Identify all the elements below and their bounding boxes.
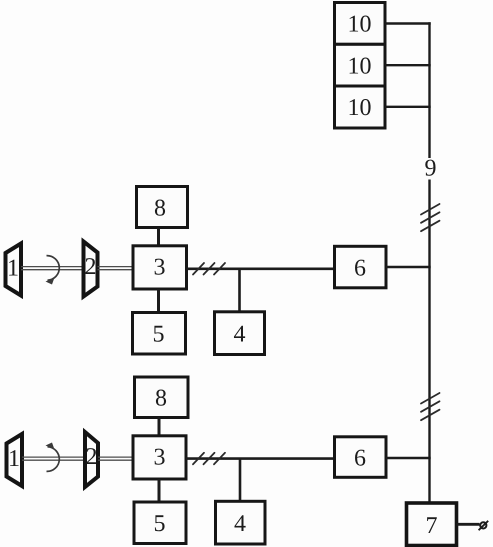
propeller 1 (top) <box>6 244 22 296</box>
wire junction drop to 4 (top) <box>238 269 241 312</box>
wire 7 output <box>457 523 480 526</box>
svg-text:9: 9 <box>425 156 437 182</box>
block 5 (top) <box>133 313 186 355</box>
block 5 (bottom) <box>134 502 186 544</box>
wire junction drop to 4 (bottom) <box>239 459 242 502</box>
output terminal symbol <box>479 521 489 530</box>
svg-text:4: 4 <box>234 322 246 348</box>
wire 10c to bus <box>385 106 431 108</box>
wire 3 to 6 (bottom) <box>186 457 335 460</box>
rotation arrow (top) <box>46 256 60 285</box>
block 3 (top) <box>133 246 187 289</box>
hash marks on wire 3-6 (top) <box>193 263 225 275</box>
wire 3 to 6 (top) <box>187 267 335 270</box>
block 10b <box>335 44 386 86</box>
wire 6 to bus (bottom) <box>386 457 431 459</box>
svg-text:2: 2 <box>85 254 97 280</box>
shaft segment 2-3 (top, double line) <box>98 267 134 270</box>
shaft segment 2-3 (bottom, double line) <box>98 457 133 460</box>
block 6 (bottom) <box>335 437 387 478</box>
propeller 1 (bottom) <box>7 434 23 486</box>
rotation arrow (bottom) <box>46 443 60 472</box>
svg-text:8: 8 <box>154 196 166 222</box>
block 8 (bottom) <box>135 377 189 418</box>
svg-text:3: 3 <box>154 255 166 281</box>
svg-text:8: 8 <box>155 386 167 412</box>
block 8 (top) <box>137 187 188 228</box>
svg-text:3: 3 <box>154 445 166 471</box>
bus hash marks lower group <box>421 393 440 420</box>
svg-text:10: 10 <box>348 54 372 80</box>
svg-text:1: 1 <box>8 446 20 472</box>
block 10c <box>335 86 386 128</box>
wire 8-3 (top) <box>157 228 160 247</box>
coupling 2 (bottom) <box>85 432 98 487</box>
wire 3-5 (bottom) <box>158 479 161 502</box>
shaft segment 1-2 (bottom, double line) <box>22 457 85 460</box>
hash marks on wire 3-6 (bottom) <box>193 453 225 465</box>
svg-text:4: 4 <box>234 511 246 537</box>
svg-text:2: 2 <box>86 444 98 470</box>
wire 8-3 (bottom) <box>158 417 161 436</box>
block 3 (bottom) <box>133 436 186 479</box>
shaft segment 1-2 (top, double line) <box>21 267 84 270</box>
block 4 (top) <box>215 312 265 355</box>
block 4 (bottom) <box>216 501 266 544</box>
svg-text:6: 6 <box>354 256 366 282</box>
wire 10b to bus <box>385 64 431 66</box>
block 10a <box>335 3 386 45</box>
svg-text:10: 10 <box>348 12 372 38</box>
bus 9 lower segment <box>428 180 430 505</box>
wire 3-5 (top) <box>157 289 160 313</box>
svg-text:5: 5 <box>153 322 165 348</box>
wire 6 to bus (top) <box>386 266 431 268</box>
block 7 <box>407 503 457 546</box>
svg-text:10: 10 <box>348 95 372 121</box>
block 6 (top) <box>335 246 387 287</box>
svg-text:6: 6 <box>354 446 366 472</box>
svg-text:7: 7 <box>426 513 438 539</box>
wire 10a to bus <box>385 22 431 24</box>
coupling 2 (top) <box>84 242 98 297</box>
bus hash marks upper group <box>421 204 440 231</box>
svg-text:1: 1 <box>7 256 19 282</box>
svg-text:5: 5 <box>154 511 166 537</box>
bus 9 upper segment <box>428 22 430 158</box>
